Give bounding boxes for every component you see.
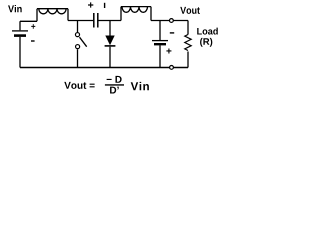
battery B1 positive plate — [12, 30, 28, 32]
switch S1 blade — [80, 37, 87, 47]
wire: diode to bottom rail — [109, 47, 111, 68]
capacitor C1 - polarity tick — [104, 3, 106, 8]
capacitor C2 bottom plate — [154, 43, 166, 45]
diode D1 cathode bar — [105, 45, 116, 47]
label Vin — [8, 5, 22, 12]
wire: load right leg top — [187, 21, 189, 35]
wire: capacitor C2 stem bottom — [159, 45, 161, 67]
wire: diode stem from top rail — [109, 21, 111, 36]
battery B1 negative plate — [14, 34, 26, 37]
node: output return terminal — [170, 66, 174, 70]
load label "Load" — [197, 28, 218, 35]
wire: switch stem from top rail — [77, 21, 79, 33]
capacitor C2 - polarity label — [170, 32, 174, 33]
load label "(R)" — [200, 38, 212, 47]
wire: Vin source top lead — [20, 21, 37, 30]
wire: L2 to load corner — [151, 20, 188, 22]
wire: battery to bottom rail — [19, 37, 21, 68]
formula "Vin" — [131, 82, 149, 90]
wire: switch to bottom rail — [77, 49, 79, 67]
capacitor C2 top plate — [152, 40, 168, 42]
wire: L1 to capacitor C1 — [68, 20, 94, 22]
resistor R zigzag — [185, 35, 191, 51]
wire: bottom rail — [20, 67, 188, 69]
wire: C1 to inductor L2 — [98, 20, 121, 22]
switch S1 top contact — [75, 33, 79, 37]
label Vout — [180, 7, 200, 14]
formula fraction bar — [105, 84, 124, 86]
formula "Vout =" — [64, 82, 94, 89]
battery B1 + polarity label — [31, 24, 35, 29]
capacitor C1 + polarity label — [88, 2, 93, 7]
inductor L1 — [37, 9, 68, 22]
node: Vout output terminal — [170, 19, 174, 23]
inductor L2 — [121, 7, 151, 21]
switch S1 bottom contact — [76, 45, 80, 49]
battery B1 - polarity label — [31, 40, 35, 41]
wire: capacitor C2 stem from top rail — [159, 21, 161, 41]
capacitor C1 plates — [94, 13, 98, 28]
formula denominator "D'" — [110, 87, 119, 94]
capacitor C2 + polarity label — [166, 48, 171, 53]
wire: load right leg bottom — [187, 52, 189, 68]
diode D1 anode triangle — [105, 36, 114, 46]
formula numerator "- D" — [107, 76, 122, 83]
